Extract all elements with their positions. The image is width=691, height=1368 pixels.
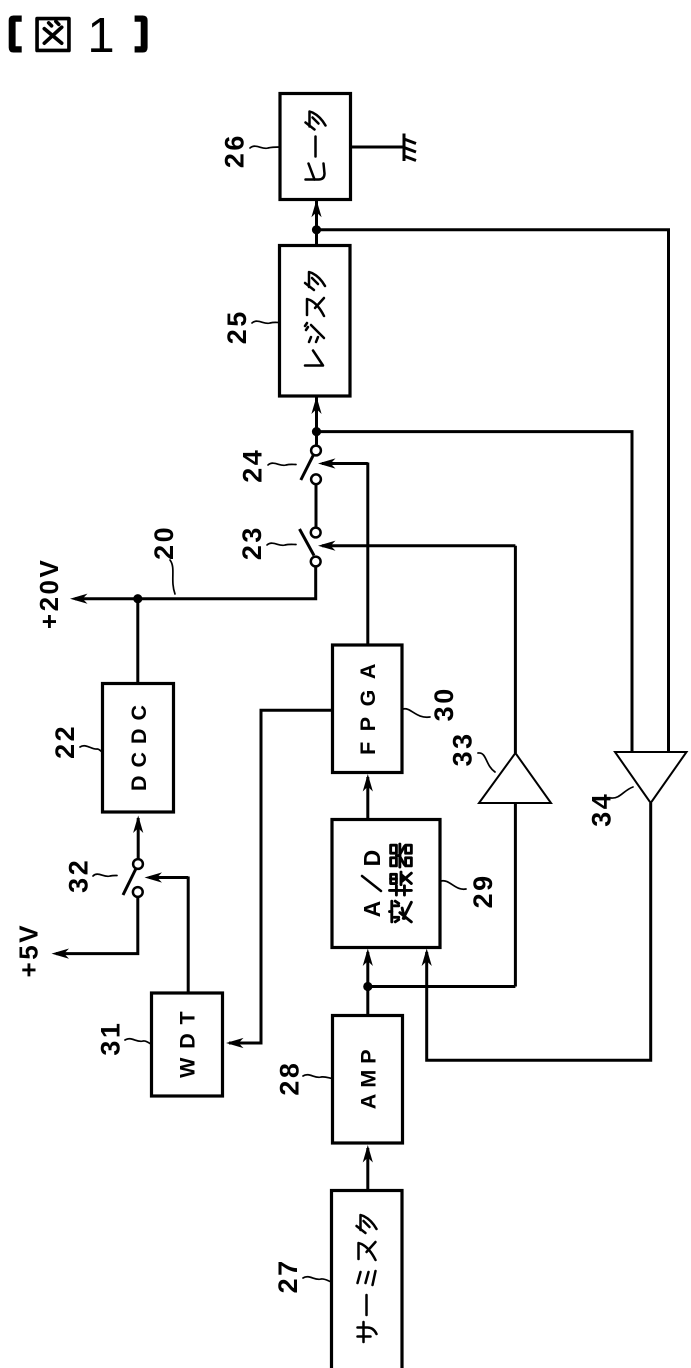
- wire: node B up into register with arrow: [311, 397, 321, 445]
- switch 32: [123, 859, 143, 897]
- svg-text:22: 22: [50, 724, 80, 759]
- label 22: [50, 724, 80, 759]
- switch 24: [301, 446, 321, 485]
- svg-text:29: 29: [468, 873, 498, 908]
- leader for 20: [170, 560, 175, 594]
- wire: triangle 34 output down, left and up into A/D: [422, 803, 651, 1060]
- label 29: [468, 873, 498, 908]
- leader for 33: [478, 753, 495, 772]
- block 29: A/D converter (A/D変換器): [332, 820, 440, 948]
- wire: switch 32 bottom to +5V arrow: [56, 897, 138, 953]
- leader for 26: [250, 146, 280, 148]
- +5V label: [13, 923, 43, 978]
- label 24: [237, 448, 267, 483]
- svg-text:30: 30: [429, 686, 459, 721]
- leader for 27: [303, 1277, 332, 1282]
- label 30: [429, 686, 459, 721]
- wire: thermistor to AMP with arrow: [363, 1145, 373, 1191]
- wire between switch 24 and switch 23: [315, 485, 318, 528]
- wire: AMP to A/D with arrow and node C: [363, 949, 373, 1016]
- svg-text:25: 25: [222, 309, 252, 344]
- wire: node B feedback to right: [317, 432, 633, 752]
- block 30: FPGA: [333, 645, 403, 773]
- leader for 28: [303, 1075, 333, 1079]
- node on +20V rail: [133, 594, 142, 603]
- wire: A/D to FPGA with arrow: [363, 774, 373, 820]
- leader for 25: [252, 321, 280, 323]
- block 28: AMP: [333, 1016, 403, 1144]
- wire: switch 23 bottom down and left to +20V line: [138, 567, 316, 599]
- svg-text:AMP: AMP: [357, 1043, 381, 1109]
- block 31: WDT: [152, 993, 223, 1096]
- leader for 29: [441, 881, 466, 889]
- control wire into switch 23 from triangle 33: [318, 541, 515, 551]
- block 27: thermistor (サーミスタ): [332, 1191, 403, 1368]
- wire: register top to heater bottom with node A: [311, 200, 321, 246]
- label 31: [95, 1021, 125, 1056]
- node A junction: [312, 225, 321, 234]
- +20V label: [34, 558, 64, 629]
- svg-text:32: 32: [64, 858, 94, 893]
- triangle 34 buffer: [615, 752, 687, 803]
- label 26: [220, 133, 250, 168]
- control wire into switch 32 from WDT: [145, 872, 189, 993]
- +5V arrow: [52, 949, 70, 959]
- label 28: [274, 1061, 304, 1096]
- label 23: [237, 525, 267, 560]
- label 27: [273, 1258, 303, 1293]
- leader for 34: [611, 787, 633, 798]
- label 34: [587, 792, 617, 827]
- label 32: [64, 858, 94, 893]
- block 26: heater (ヒータ): [280, 94, 351, 200]
- svg-text:WDT: WDT: [176, 1003, 200, 1078]
- svg-text:24: 24: [237, 448, 267, 483]
- leader for 22: [80, 746, 103, 753]
- title figure label 【図 1】: [9, 9, 148, 63]
- svg-text:+5V: +5V: [13, 923, 43, 978]
- svg-text:+20V: +20V: [34, 558, 64, 629]
- svg-text:23: 23: [237, 525, 267, 560]
- label 33: [448, 731, 478, 766]
- svg-text:28: 28: [274, 1061, 304, 1096]
- svg-text:D: D: [359, 850, 385, 867]
- leader for 32: [93, 874, 117, 876]
- switch 23: [300, 528, 321, 567]
- svg-text:20: 20: [149, 525, 179, 560]
- control wire into WDT right from FPGA: [226, 710, 333, 1048]
- wire: switch 32 up into DCDC with arrow: [133, 816, 143, 859]
- node B junction: [312, 427, 321, 436]
- wire: node C to triangle 33 input: [514, 803, 517, 987]
- svg-text:33: 33: [448, 731, 478, 766]
- svg-text:34: 34: [587, 792, 617, 827]
- leader for 23: [267, 543, 296, 545]
- wire: triangle 33 output up: [514, 546, 517, 753]
- svg-text:1: 1: [87, 9, 114, 63]
- svg-text:DCDC: DCDC: [127, 697, 151, 791]
- +20V rail with arrow: [70, 594, 138, 604]
- leader for 31: [125, 1039, 152, 1045]
- wire: node A feedback to right edge: [317, 230, 669, 752]
- triangle 33 buffer: [479, 753, 551, 803]
- control wire into switch 24 from FPGA: [318, 458, 368, 645]
- svg-text:27: 27: [273, 1258, 303, 1293]
- ground symbol: [404, 134, 416, 162]
- node C junction: [363, 982, 372, 991]
- wire: node C right: [368, 985, 516, 988]
- svg-text:A: A: [359, 901, 385, 918]
- wire: heater right to ground: [351, 146, 404, 149]
- svg-text:FPGA: FPGA: [356, 653, 380, 755]
- label 20: [149, 525, 179, 560]
- label 25: [222, 309, 252, 344]
- svg-text:26: 26: [220, 133, 250, 168]
- leader for 24: [268, 463, 296, 465]
- leader for 30: [403, 709, 430, 717]
- block 25: register (レジスタ): [280, 246, 351, 397]
- block 22: DCDC: [103, 684, 174, 813]
- svg-text:31: 31: [95, 1021, 125, 1056]
- wire: DCDC top to +20V node: [136, 599, 139, 684]
